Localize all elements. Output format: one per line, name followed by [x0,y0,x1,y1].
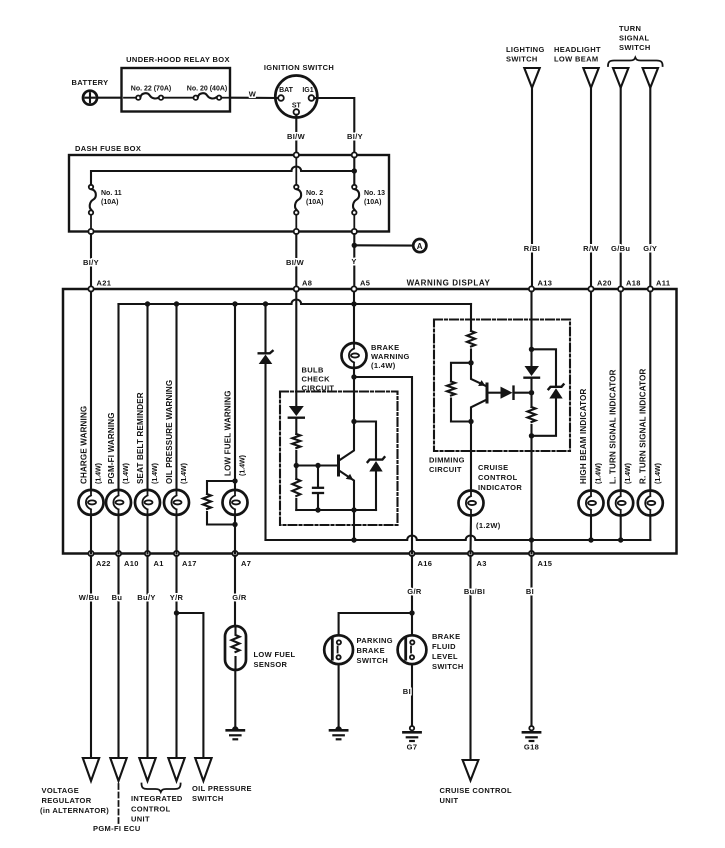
svg-text:CHECK: CHECK [302,375,331,384]
svg-text:BI/Y: BI/Y [83,258,99,267]
svg-text:R/BI: R/BI [524,244,540,253]
svg-text:(1.4W): (1.4W) [625,463,632,484]
svg-text:A16: A16 [418,559,433,568]
svg-text:A: A [417,242,423,251]
terminal A7 [232,551,251,568]
svg-text:FLUID: FLUID [432,642,456,651]
node A [413,239,426,252]
svg-text:W/Bu: W/Bu [79,593,100,602]
junction base node [294,463,299,468]
svg-text:CHARGE WARNING: CHARGE WARNING [80,406,89,484]
svg-text:No. 11: No. 11 [101,190,122,197]
terminal on dash box bottom x=354 [352,229,357,234]
capacitor C1 [313,463,323,513]
svg-text:A18: A18 [626,279,641,288]
svg-text:WARNING: WARNING [371,352,410,361]
wire headlight to A20, label R/W [583,88,599,289]
dashed lead to PGM-FI ECU [93,784,141,833]
dash fuse box [69,144,389,232]
svg-text:REGULATOR: REGULATOR [42,796,92,805]
connector from turn signal switch (left) [613,68,628,88]
ground G18 [523,726,540,752]
wire left turn lamp to ground bus [620,516,622,541]
svg-text:LEVEL: LEVEL [432,652,458,661]
bulb check circuit box [280,366,398,526]
svg-text:No. 13: No. 13 [364,190,385,197]
svg-text:No. 2: No. 2 [306,190,323,197]
svg-text:DASH FUSE BOX: DASH FUSE BOX [75,144,141,153]
junction collector node [351,419,356,424]
svg-text:OIL PRESSURE WARNING: OIL PRESSURE WARNING [165,380,174,484]
wire A17 to integrated control unit, label Y/R [170,556,184,758]
wire bus to seat belt lamp [146,304,148,490]
wire A3 to cruise control unit, label Bu/BI [464,556,485,760]
wire A8 into bulb check circuit [295,292,297,406]
wire A7 to low fuel sensor, label G/R [232,556,247,626]
wire A18 to left turn lamp [620,292,622,491]
svg-text:LOW BEAM: LOW BEAM [554,55,598,64]
svg-text:UNDER-HOOD RELAY BOX: UNDER-HOOD RELAY BOX [126,55,230,64]
ground bus (bottom) [266,536,651,543]
svg-text:A20: A20 [597,279,612,288]
svg-text:A11: A11 [656,279,670,288]
resistor R1 [292,434,300,448]
diode D1 (bus to ground bus) [259,304,273,540]
svg-text:A1: A1 [154,559,164,568]
fuse No. 2 (10A) [294,158,323,232]
svg-text:TURN: TURN [619,24,641,33]
wire A22 to voltage regulator, label W/Bu [79,556,100,758]
wire IG1 to dash fuse box, label BI/Y [314,98,363,153]
connector to cruise control unit [463,760,479,781]
svg-text:LIGHTING: LIGHTING [506,45,545,54]
diode D2 (bulb check input) [289,406,304,434]
terminal A21 [88,279,111,292]
wire high beam lamp to ground bus [590,516,592,541]
svg-text:A15: A15 [538,559,553,568]
svg-text:G/Bu: G/Bu [611,244,630,253]
svg-text:Bu: Bu [112,593,123,602]
wire bus to oil pressure lamp [175,304,177,490]
svg-text:DIMMING: DIMMING [429,456,465,465]
svg-text:BI: BI [526,587,534,596]
dimming circuit box [429,320,570,475]
cruise control unit label [440,786,512,805]
svg-text:A8: A8 [302,279,312,288]
svg-text:L. TURN SIGNAL INDICATOR: L. TURN SIGNAL INDICATOR [609,369,618,484]
svg-text:SENSOR: SENSOR [254,660,288,669]
svg-text:PGM-FI WARNING: PGM-FI WARNING [107,412,116,484]
connector from headlight low beam [554,45,601,88]
svg-text:SWITCH: SWITCH [357,656,389,665]
svg-text:(1.4W): (1.4W) [240,455,247,476]
wire brake lamp to collector node [351,368,356,422]
bulb check ground rail [296,507,376,512]
wire fuse 11 to A21, label BI/Y [83,234,99,289]
wire bus to pgm-fi lamp [117,304,119,490]
wire A21 to charge lamp [90,292,92,490]
svg-text:HEADLIGHT: HEADLIGHT [554,45,601,54]
svg-text:A17: A17 [182,559,197,568]
svg-text:UNIT: UNIT [440,796,459,805]
terminal A3 [468,551,487,568]
svg-text:SIGNAL: SIGNAL [619,34,650,43]
svg-text:W: W [249,90,257,99]
zener diode ZD1 [354,422,384,511]
wire to parking brake switch [339,613,412,635]
svg-text:BI/W: BI/W [286,258,305,267]
svg-text:IGNITION SWITCH: IGNITION SWITCH [264,63,334,72]
svg-text:(in ALTERNATOR): (in ALTERNATOR) [40,806,109,815]
wire A20 to high beam lamp [590,292,592,491]
svg-text:G18: G18 [524,743,539,752]
oil pressure warning lamp [164,380,189,515]
connector to PGM-FI ECU [110,758,126,781]
svg-text:R. TURN SIGNAL INDICATOR: R. TURN SIGNAL INDICATOR [638,369,647,484]
terminal A11 [648,279,671,292]
terminal A22 [88,551,110,568]
wire cruise lamp to A3 [469,516,472,554]
transistor Q1 [339,422,355,511]
svg-text:HIGH BEAM INDICATOR: HIGH BEAM INDICATOR [579,388,588,484]
connector to voltage regulator [83,758,99,781]
seat belt reminder lamp [135,392,160,515]
junction at Y wire [352,243,357,248]
wire dimming collector to cruise lamp [470,422,472,491]
wire pgm-fi lamp to A10 [117,515,119,554]
right turn signal indicator lamp [638,369,663,516]
terminal A16 [409,551,432,568]
terminal A18 [618,279,641,292]
svg-text:Bu/Y: Bu/Y [137,593,155,602]
wire R1 to R2 [295,451,297,479]
wire ST to dash fuse box, label BI/W [287,115,306,153]
wire low fuel sensor to ground [234,670,236,726]
resistor R3 (dimming feed) [467,331,475,347]
wire brake fluid switch to ground G7, label BI [403,664,412,725]
svg-text:BI: BI [403,687,411,696]
terminal A1 [145,551,164,568]
ignition switch [264,63,334,118]
junction low fuel bottom [232,522,237,527]
wire bus to dimming feed resistor [470,304,472,331]
junction low fuel top [232,478,237,483]
junction emitter node [468,360,473,365]
svg-text:SWITCH: SWITCH [432,662,464,671]
wire A13 into dimming circuit [530,292,532,366]
wire A5 to brake warning lamp [353,292,355,343]
ground (low fuel sensor) [227,726,244,739]
connector to integrated control unit (right) [168,758,184,781]
wire A15 to ground G18, label BI [526,556,534,726]
svg-text:(10A): (10A) [101,199,119,206]
terminal A5 [351,279,370,292]
svg-text:A22: A22 [96,559,111,568]
svg-text:(1.4W): (1.4W) [96,463,103,484]
svg-text:G7: G7 [407,743,418,752]
svg-text:(1.4W): (1.4W) [123,463,130,484]
wire fuse 13 to A5, label Y [351,234,356,289]
supply bus (top) [119,300,472,307]
wire A1 to integrated control unit, label Bu/Y [137,556,155,758]
base wire Q2 [489,392,501,394]
svg-text:WARNING DISPLAY: WARNING DISPLAY [407,279,491,288]
transistor Q2 [471,363,487,422]
terminal A13 [529,279,552,292]
wire to node A [354,244,413,246]
svg-text:A13: A13 [538,279,553,288]
wire fuse 2 to A8, label BI/W [286,234,305,289]
svg-text:CIRCUIT: CIRCUIT [429,465,462,474]
pgm-fi warning lamp [106,412,131,515]
terminal A8 [294,279,313,292]
wire Y/R branch to oil pressure switch [177,613,204,758]
svg-text:SWITCH: SWITCH [506,55,538,64]
battery [71,78,108,105]
wire relay box to ignition switch, label W [230,90,278,99]
svg-text:R/W: R/W [583,244,599,253]
svg-text:(10A): (10A) [364,199,382,206]
svg-text:BATTERY: BATTERY [71,78,108,87]
terminal A15 [529,551,552,568]
svg-text:BRAKE: BRAKE [432,632,460,641]
svg-text:CRUISE: CRUISE [478,463,508,472]
svg-text:G/R: G/R [232,593,247,602]
voltage regulator label [40,786,109,815]
connector to oil pressure switch [195,758,211,781]
terminal A17 [174,551,197,568]
svg-text:(1.2W): (1.2W) [476,521,501,530]
junction collector node (dimming) [468,419,473,424]
svg-text:A7: A7 [241,559,251,568]
terminal on dash box bottom x=91 [88,229,93,234]
wire to A11, label G/Y [643,88,657,289]
svg-text:LOW FUEL: LOW FUEL [254,650,296,659]
svg-text:G/R: G/R [407,587,422,596]
junction parking brake branch [409,610,414,615]
wire A11 to right turn lamp [649,292,651,491]
svg-text:(1.4W): (1.4W) [152,463,159,484]
terminal A10 [116,551,139,568]
junction Y/R branch [174,610,179,615]
svg-text:LOW FUEL WARNING: LOW FUEL WARNING [224,390,233,476]
wire R3 to emitter node [470,350,472,363]
connector from turn signal switch (right) [643,68,658,88]
high beam indicator lamp [579,388,604,515]
brake warning lamp [342,343,410,370]
wire dimming to A15 [530,436,532,554]
svg-text:BI/Y: BI/Y [347,132,363,141]
low fuel shunt resistor [203,481,235,525]
ground G7 [403,726,420,752]
diode D4 (pointing down) [525,366,540,407]
svg-text:Y/R: Y/R [170,593,184,602]
svg-text:A10: A10 [124,559,139,568]
svg-text:(1.4W): (1.4W) [181,463,188,484]
base wire to Q1 [296,464,337,466]
fuse No. 13 (10A) [352,185,385,232]
svg-text:G/Y: G/Y [643,244,657,253]
wire A16 down, label G/R [407,556,422,635]
svg-text:CONTROL: CONTROL [478,473,518,482]
charge warning lamp [79,406,104,515]
turn signal switch label and brace [608,24,663,66]
svg-text:OIL PRESSURE: OIL PRESSURE [192,784,252,793]
terminal on dash box top (BI/W) [294,152,299,157]
warning display box [63,279,677,554]
wire low fuel lamp to A7 [234,515,236,554]
wire parking brake switch to ground [338,664,340,726]
wire charge lamp to A22 [90,515,92,554]
resistor R2 [292,479,300,496]
svg-text:No. 20 (40A): No. 20 (40A) [187,86,227,93]
wire battery to relay box [97,97,122,99]
ground (parking brake switch) [330,726,347,739]
svg-text:BRAKE: BRAKE [357,646,385,655]
svg-text:VOLTAGE: VOLTAGE [42,786,80,795]
brake fluid level switch [398,632,464,671]
wire A10 to PGM-FI ECU, label Bu [112,556,123,758]
svg-text:(10A): (10A) [306,199,324,206]
svg-text:No. 22 (70A): No. 22 (70A) [131,86,171,93]
junction base node (dimming) [529,390,534,395]
wire bus to low fuel lamp [234,304,236,490]
low fuel warning lamp [223,390,248,515]
under-hood relay box [122,55,231,112]
fuse No. 11 (10A) [89,185,122,232]
svg-text:Y: Y [351,257,356,266]
parking brake switch [324,635,393,665]
svg-text:SWITCH: SWITCH [619,43,651,52]
svg-text:BAT: BAT [279,87,294,94]
junction bottom node (dimming) [529,433,534,438]
svg-text:(1.4W): (1.4W) [655,463,662,484]
wire right turn lamp to ground bus [649,516,651,541]
svg-text:CRUISE CONTROL: CRUISE CONTROL [440,786,512,795]
wire oil pressure lamp to A17 [175,515,177,554]
integrated control unit label [131,794,183,824]
svg-text:PGM-FI ECU: PGM-FI ECU [93,824,141,833]
svg-text:Bu/BI: Bu/BI [464,587,485,596]
connector to integrated control unit (left) [139,758,155,781]
svg-text:CONTROL: CONTROL [131,805,171,814]
oil pressure switch label [192,784,252,803]
inner bus of dash fuse box [91,158,357,185]
wire brake lamp node to A16 [354,377,412,554]
svg-text:SEAT BELT REMINDER: SEAT BELT REMINDER [136,392,145,484]
svg-text:A5: A5 [360,279,370,288]
left turn signal indicator lamp [608,369,633,515]
svg-text:UNIT: UNIT [131,815,150,824]
wire seat belt lamp to A1 [146,515,148,554]
wire rail to ground bus [353,510,355,540]
terminal on dash box bottom x=296 [294,229,299,234]
diode D3 (base, pointing right) [501,387,532,399]
svg-text:A21: A21 [97,279,112,288]
fuse No. 22 (70A) [124,86,194,100]
svg-text:A3: A3 [477,559,487,568]
svg-text:BI/W: BI/W [287,132,306,141]
wire lighting switch to A13, label R/BI [524,88,540,289]
svg-text:(1.4W): (1.4W) [596,463,603,484]
resistor R5 [528,407,536,422]
svg-text:(1.4W): (1.4W) [371,361,396,370]
svg-text:BRAKE: BRAKE [371,343,399,352]
svg-text:BULB: BULB [302,366,324,375]
svg-text:INTEGRATED: INTEGRATED [131,794,183,803]
cruise control indicator lamp [459,463,523,530]
brace integrated control unit [142,784,181,793]
svg-text:SWITCH: SWITCH [192,794,224,803]
wire R2 to rail [295,499,297,510]
junction A13 node [529,347,534,352]
terminal A20 [588,279,611,292]
svg-text:IG1: IG1 [302,87,313,94]
svg-text:INDICATOR: INDICATOR [478,483,522,492]
wire R5 to bottom node [530,425,532,436]
low fuel sensor [225,626,296,670]
terminal on dash box top (BI/Y) [352,152,357,157]
resistor R4 (dimming left) [447,363,471,422]
wire to A18, label G/Bu [611,88,630,289]
zener diode ZD2 [532,349,564,436]
fuse No. 20 (40A) [187,86,230,100]
svg-text:PARKING: PARKING [357,636,393,645]
connector from lighting switch [506,45,545,88]
